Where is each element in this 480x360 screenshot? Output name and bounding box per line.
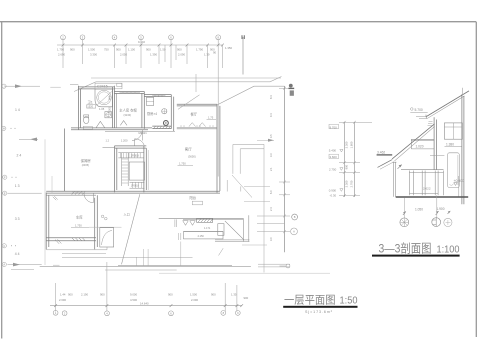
stair upper treads [118,153,143,158]
svg-text:1.171: 1.171 [204,227,211,230]
svg-text:C: C [3,244,5,248]
svg-text:卫1: 卫1 [88,101,93,105]
section: left chain tick rows [339,122,372,195]
planter triangles [183,221,196,226]
svg-text:2.690: 2.690 [58,53,65,57]
right annex step lines [233,144,264,148]
kitchen burner circle [162,109,167,114]
svg-text:9: 9 [237,311,239,315]
section: tall door leaf [448,153,460,188]
right chain stub lines [242,140,274,245]
sliding door swing bumps [189,123,206,127]
section: upper window [444,123,462,139]
left wing window hatch [72,238,85,241]
svg-text:1 4: 1 4 [15,108,20,112]
section: upper roof under line [428,96,465,118]
section: right wall axis tick [462,88,464,95]
left wing left wall [46,193,49,250]
bottom arrow mark [280,265,287,267]
svg-text:(2035): (2035) [82,164,89,167]
svg-text:3: 3 [82,35,84,39]
section: axis bubble 1 [400,218,409,227]
bathroom top wall [78,87,114,89]
svg-text:2 4: 2 4 [17,153,22,157]
steps side ticks [179,233,181,240]
terrace top line [159,218,244,219]
svg-text:9.140: 9.140 [138,40,145,44]
section: 2F left wall [434,117,436,169]
svg-text:3.300: 3.300 [90,53,97,57]
section: lower roof line [392,124,435,159]
porch column rect [100,228,114,247]
svg-text:客厅: 客厅 [185,146,192,151]
corridor bottom wall [71,128,152,130]
grid bubble axis 6 [216,35,221,40]
svg-text:900: 900 [100,293,105,297]
svg-text:1.35: 1.35 [231,293,237,297]
section: left chain rotated dims [345,141,354,187]
left annotation row A arrow [5,85,40,87]
kitchen door diagonal [178,95,200,110]
svg-text:1.020: 1.020 [416,144,424,148]
terrace diagonal [225,221,244,240]
svg-text:750: 750 [104,48,109,52]
svg-text:1.05: 1.05 [99,107,105,111]
section: roof level label [411,108,414,111]
svg-text:2.690: 2.690 [59,298,66,302]
svg-text:9.4: 9.4 [269,113,273,117]
bathroom bottom tag [83,126,92,129]
svg-text:A: A [3,263,5,267]
svg-text:14.640: 14.640 [140,301,149,305]
svg-text:1.75: 1.75 [208,116,214,120]
svg-text:1:100: 1:100 [437,244,460,256]
svg-text:900: 900 [177,48,182,52]
svg-text:3.300: 3.300 [345,180,349,187]
roof eaves corner diagonal [74,82,96,92]
section: canopy band [411,139,434,149]
svg-text:900: 900 [116,48,121,52]
svg-text:B: B [294,215,296,219]
svg-text:1.790: 1.790 [196,48,203,52]
right annex vertical 2 [263,144,265,272]
svg-text:900: 900 [211,293,216,297]
terrace tick posts [175,219,177,227]
svg-text:8.4: 8.4 [269,95,273,99]
svg-text:9.000: 9.000 [130,293,137,297]
svg-text:2: 2 [64,311,66,315]
right annex lower diagonal [232,175,252,198]
svg-text:2.4: 2.4 [269,207,273,211]
svg-text:2F0818: 2F0818 [131,154,140,157]
svg-text:2: 2 [62,35,64,39]
svg-text:5.400: 5.400 [329,149,337,153]
eave stub left [70,84,78,86]
svg-text:1.100: 1.100 [128,48,135,52]
svg-text:4: 4 [106,311,108,315]
svg-text:1.200: 1.200 [121,138,128,142]
svg-text:保姆房: 保姆房 [81,158,92,163]
svg-text:1.790: 1.790 [57,48,64,52]
svg-text:900: 900 [70,48,75,52]
toilet [84,116,89,123]
svg-text:1.44: 1.44 [60,293,66,297]
svg-text:4.5: 4.5 [269,134,273,138]
wash basin [105,112,112,118]
section: plus zero wall stub [458,176,460,197]
svg-text:(3130): (3130) [124,113,132,117]
svg-text:1:50: 1:50 [340,296,358,307]
bathroom window tag box [95,83,122,89]
svg-text:900: 900 [168,293,173,297]
right chain dim texts [269,95,273,241]
south wall window hatch [72,192,86,195]
left wing inner wall [95,195,98,249]
kitchen small circle [164,121,169,126]
section: axis bubble 2 [432,218,441,227]
bedroom left wall inner line [116,93,118,128]
bottom dimension line [50,305,242,307]
svg-text:1.50: 1.50 [160,48,166,52]
small diagonal near bottom lines [219,248,224,255]
svg-text:-0.30: -0.30 [330,193,337,197]
terrace corner verticals [243,215,249,241]
section: eaves fascia lines [416,117,428,119]
svg-text:5.700: 5.700 [415,108,423,112]
svg-text:主人房 衣帽: 主人房 衣帽 [119,107,137,112]
kitchen top wall [144,95,171,97]
bedroom window mid line [120,91,141,93]
svg-text:1.750: 1.750 [179,162,186,166]
section: ground line [396,196,469,198]
eaves diagonal over dining [217,86,285,105]
grid bubble axis 4 [139,35,144,40]
right chain tick rows [257,88,290,231]
svg-text:1.390: 1.390 [150,53,157,57]
svg-text:2.050: 2.050 [120,53,127,57]
bedroom window tag [117,83,122,86]
svg-text:6: 6 [170,311,172,315]
svg-text:入口: 入口 [124,212,130,216]
garage door swing [84,193,93,202]
svg-text:餐厅: 餐厅 [191,112,198,117]
svg-text:2.090: 2.090 [178,53,185,57]
svg-text:3.3: 3.3 [269,153,273,157]
terrace mid line [184,231,224,233]
svg-text:3 3: 3 3 [15,217,20,221]
stair void rectangle [129,162,144,180]
south wall main band [46,191,220,193]
section: lower roof under line [395,126,435,160]
bottom dimension extension lines [56,262,237,312]
svg-text:1.800: 1.800 [350,141,354,148]
section cut line 3 top flag [242,37,244,75]
top dimension tick marks [62,44,224,47]
section flag top [289,84,293,88]
bubble digits [3,35,296,315]
right chain circle 1 [292,214,298,220]
section: porch column [393,162,397,197]
svg-text:1.500: 1.500 [88,48,95,52]
garage window ticks [73,191,82,193]
kitchen bottom hatch band [152,126,171,128]
planter hatched box [197,219,213,223]
svg-text:4.150: 4.150 [198,235,205,238]
section: right wall [462,94,464,204]
bedroom door swing [120,121,127,126]
stair bottom treads [130,182,145,188]
grid bubble axis 5 [169,35,174,40]
top dimension extension lines [63,40,223,177]
stair left flight [122,153,129,186]
svg-text:C2415: C2415 [97,85,108,89]
section: upper roof line [426,91,469,117]
svg-text:+0.000: +0.000 [454,179,465,183]
svg-text:3.0: 3.0 [269,237,273,241]
section: floor line [401,169,444,171]
svg-text:2.090: 2.090 [191,298,198,302]
terrace bottom lines [215,240,249,242]
section: axis bubble 3 [444,218,452,226]
entry circles [101,215,104,218]
section: left dim chain verticals [344,122,354,197]
kitchen right wall [171,95,173,131]
roof eaves line upper [91,77,281,79]
kitchen counter box [146,97,153,105]
svg-text:Sj=173.6m²: Sj=173.6m² [305,310,333,314]
plan bottom lines [47,247,108,250]
svg-text:1: 1 [55,311,57,315]
svg-text:2.622: 2.622 [423,187,431,191]
svg-text:6: 6 [170,35,172,39]
grid bubble axis 2 [80,35,85,40]
svg-text:900: 900 [345,164,349,169]
right chain circle 2 [291,228,298,235]
svg-text:4: 4 [114,35,116,39]
corridor lower wall line [105,130,175,132]
svg-text:0.900: 0.900 [329,188,337,192]
grid bubble axis 1 [61,35,66,40]
svg-text:2.1: 2.1 [269,167,273,171]
section: roof end tick [425,115,428,119]
dining top wall [177,104,217,106]
staircase right wall [144,146,146,193]
svg-text:2.750: 2.750 [329,167,337,171]
svg-text:2.700: 2.700 [350,180,354,187]
left arrow row C [19,138,38,140]
svg-text:900: 900 [68,293,73,297]
corner bathtub [95,89,113,107]
left bubble F [2,244,6,248]
stair top door arc [135,139,145,146]
roof eaves line lower [96,77,282,82]
wall hatch marks [53,196,58,200]
left bubble B [2,126,6,130]
bedroom top wall [114,92,144,94]
left bubble E + leader [3,191,7,195]
sliding door ticks [181,125,213,127]
svg-text:900: 900 [146,48,151,52]
svg-text:1.500: 1.500 [190,293,197,297]
svg-text:1.2: 1.2 [106,140,110,143]
dining sliding door line [177,127,217,128]
corridor door arc [132,130,142,140]
svg-text:厨房×4: 厨房×4 [147,111,157,116]
section: below-ground arrows [403,211,450,215]
svg-text:1.750: 1.750 [75,223,82,227]
section: axis extension verticals [404,195,437,218]
svg-text:3—3剖面图: 3—3剖面图 [379,242,432,256]
dim line across entry [89,226,122,228]
svg-text:900: 900 [108,95,112,100]
ridge stub [195,74,197,92]
svg-text:E: E [4,191,6,195]
svg-text:阳台: 阳台 [190,195,197,200]
terrace pillar [218,224,224,236]
svg-text:车库: 车库 [76,215,83,220]
section: porch roof [378,160,393,168]
svg-text:(3650): (3650) [188,155,196,159]
right vertical dim chain line [284,86,286,252]
svg-text:1.500: 1.500 [108,106,112,113]
section: lower door band [409,171,443,196]
stair left wall extension [103,146,115,148]
svg-text:5: 5 [140,35,142,39]
svg-text:4.500: 4.500 [130,298,137,302]
terrace steps rect [184,232,224,239]
left bubble D [3,175,7,179]
left wing bottom wall [46,238,96,241]
bedroom right wall [142,92,144,129]
section: left chain 45 ticks [343,121,356,197]
grid bubble axis 3 [112,35,117,40]
svg-text:1.900: 1.900 [437,207,445,211]
svg-text:3.300: 3.300 [345,141,349,148]
bathroom left wall [78,86,80,130]
section: check arrow [398,165,402,169]
svg-text:1.380: 1.380 [446,142,454,146]
svg-text:4 4: 4 4 [15,252,20,256]
svg-text:3.462: 3.462 [377,151,385,155]
svg-text:H: H [3,127,5,131]
svg-text:A: A [293,230,295,234]
svg-text:1520: 1520 [87,105,93,109]
svg-text:1 3: 1 3 [15,184,20,188]
section: roof junction marks [428,122,433,126]
svg-text:1.39: 1.39 [204,53,210,57]
staircase top wall [115,146,147,148]
svg-text:M0921: M0921 [139,131,148,135]
left extension verticals [45,139,52,265]
rotated dim text column [108,95,112,113]
staircase left wall [115,146,117,193]
top dimension line [57,44,223,46]
bathroom right / bedroom left wall [112,86,114,128]
svg-text:1.350: 1.350 [225,46,232,50]
top dimension text row 1 [57,40,232,57]
svg-text:900: 900 [244,296,249,300]
svg-text:6.0: 6.0 [269,190,273,194]
bathroom door swing [96,121,105,128]
svg-text:2.190: 2.190 [81,293,88,297]
section: level annotations [329,125,337,197]
svg-text:8: 8 [223,311,225,315]
living/terrace wall [217,104,220,192]
section cut diagonal through plan [122,194,140,264]
stair side dim line [147,150,149,190]
double lines bottom right of plan [258,264,290,267]
bottom dim texts [59,293,249,306]
svg-text:F: F [4,175,6,179]
left bubble G + leader arrow [2,262,6,266]
svg-text:1F0818: 1F0818 [131,184,140,187]
svg-text:8: 8 [217,35,219,39]
bathroom door tag box [87,105,96,108]
svg-text:1.050: 1.050 [415,207,423,211]
bottom grid bubbles [53,310,58,315]
kitchen window mid line [152,95,165,97]
svg-text:一层平面图: 一层平面图 [284,294,336,307]
bottom dim ticks [54,304,243,307]
verticals to bottom lines [136,242,180,267]
svg-text:90: 90 [213,51,217,55]
section: 2F interior line [430,154,444,156]
